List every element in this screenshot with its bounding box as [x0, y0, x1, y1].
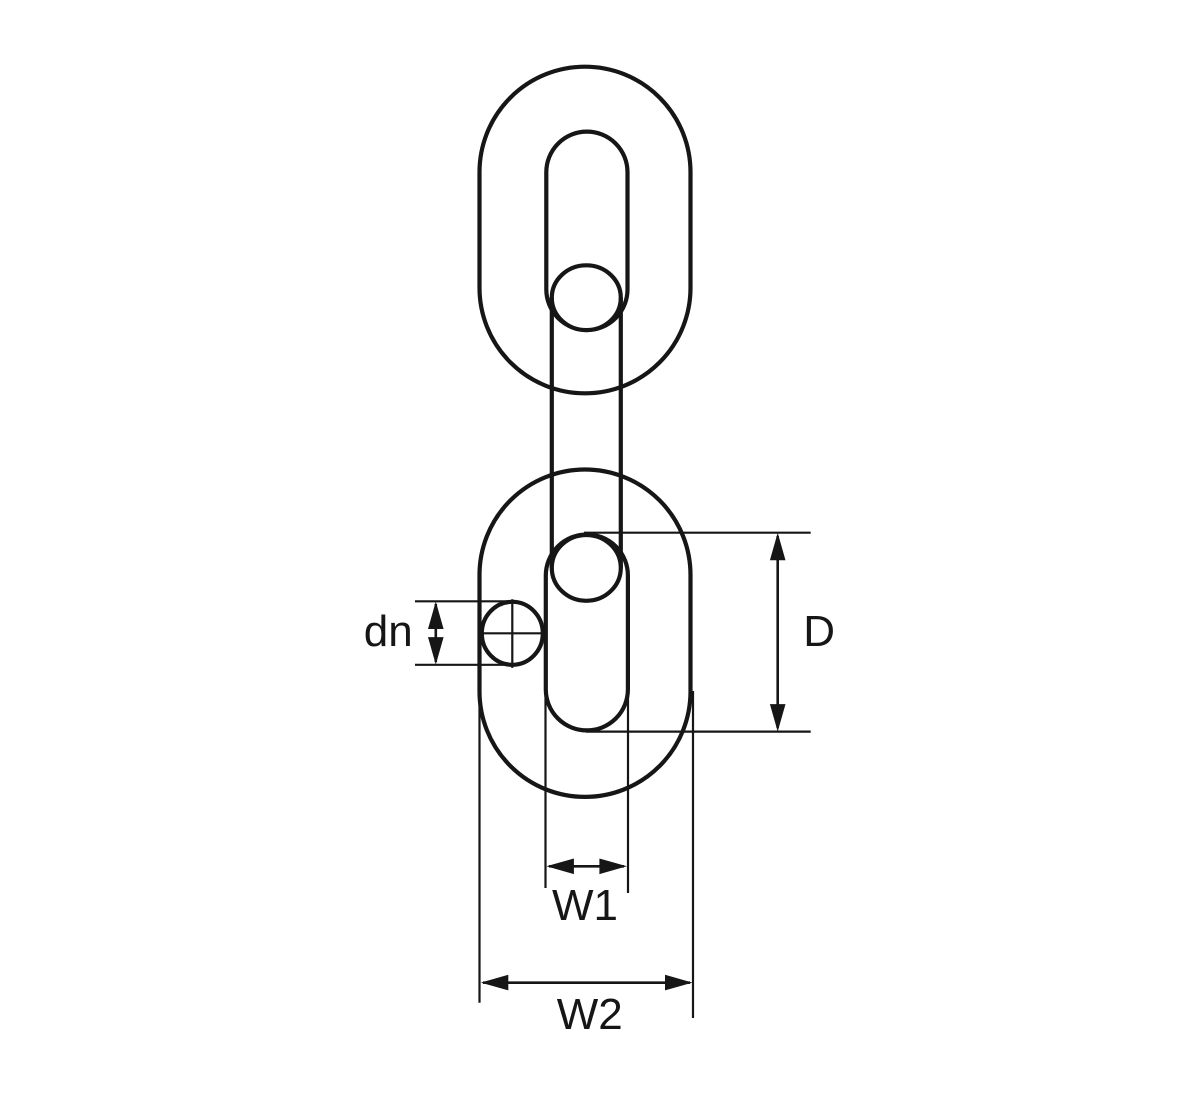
cross-section circle C2 (middle link lower end): [552, 535, 621, 601]
top chain link outer outline: [480, 67, 691, 394]
dn circle crosshair horizontal: [481, 632, 545, 634]
top chain link inner opening: [546, 132, 627, 330]
dn circle crosshair vertical: [511, 599, 513, 668]
dn lower dimension line: [415, 664, 512, 666]
W1 arrow shaft: [549, 865, 624, 868]
W2 arrowhead right: [665, 975, 693, 991]
dn upper dimension line: [415, 600, 515, 602]
middle link side-view right edge wire: [619, 298, 623, 568]
W2 left extension line: [478, 655, 480, 1003]
svg-text:D: D: [803, 607, 835, 656]
D arrowhead up: [770, 533, 786, 561]
dn arrow shaft: [434, 604, 437, 662]
D upper extension line: [584, 532, 811, 534]
D arrowhead down: [770, 704, 786, 732]
D lower extension line: [586, 730, 811, 732]
wire nominal diameter circle dn: [482, 602, 543, 665]
dn arrowhead up: [428, 602, 444, 630]
W1 arrowhead left: [546, 859, 574, 875]
W1 right extension line: [627, 691, 629, 893]
W1 arrowhead right: [599, 859, 627, 875]
dn arrowhead down: [428, 637, 444, 665]
W2 arrow shaft: [483, 981, 690, 984]
D arrow shaft: [776, 536, 779, 728]
W2 right extension line: [692, 691, 694, 1018]
middle link side-view left edge wire: [550, 298, 554, 568]
W1 left extension line: [544, 691, 546, 888]
bottom chain link inner opening: [546, 535, 628, 731]
cross-section circle C1 (middle link upper end): [552, 265, 621, 330]
W2 arrowhead left: [481, 975, 509, 991]
svg-text:dn: dn: [364, 607, 413, 656]
svg-text:W1: W1: [552, 881, 618, 930]
svg-text:W2: W2: [557, 990, 623, 1039]
bottom chain link outer outline: [480, 470, 691, 797]
